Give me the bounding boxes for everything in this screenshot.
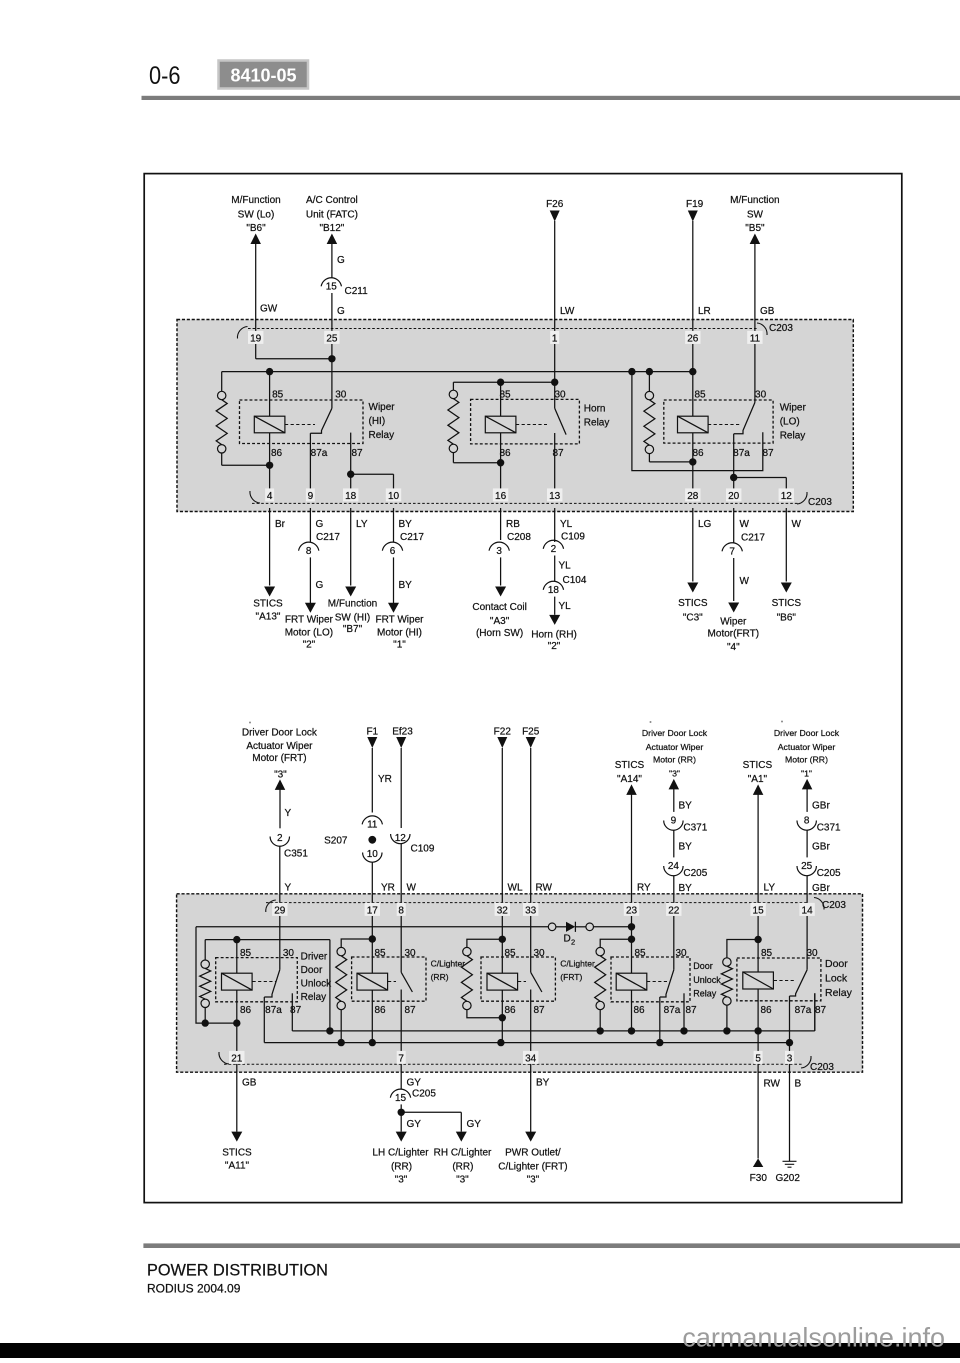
svg-text:"3": "3" <box>527 1175 540 1186</box>
svg-text:Door: Door <box>693 961 713 971</box>
svg-text:C/Lighter: C/Lighter <box>431 959 466 969</box>
svg-text:A/C Control: A/C Control <box>306 195 358 206</box>
svg-text:86: 86 <box>240 1005 252 1016</box>
svg-text:C371: C371 <box>817 823 841 834</box>
svg-text:22: 22 <box>668 906 680 917</box>
svg-text:BY: BY <box>399 519 413 530</box>
svg-text:"B12": "B12" <box>319 223 344 234</box>
svg-text:C203: C203 <box>769 323 793 334</box>
svg-text:F30: F30 <box>750 1173 768 1184</box>
svg-text:YL: YL <box>559 601 572 612</box>
svg-text:"B6": "B6" <box>777 613 797 624</box>
svg-text:YR: YR <box>381 883 395 894</box>
svg-text:87: 87 <box>351 448 363 459</box>
svg-text:(RR): (RR) <box>431 972 449 982</box>
svg-text:86: 86 <box>504 1005 516 1016</box>
svg-text:BY: BY <box>679 842 693 853</box>
svg-text:Unlock: Unlock <box>301 979 333 990</box>
svg-text:30: 30 <box>554 390 566 401</box>
svg-text:RY: RY <box>637 883 651 894</box>
svg-text:S207: S207 <box>324 836 348 847</box>
svg-text:9: 9 <box>671 816 677 827</box>
svg-text:G: G <box>337 255 345 266</box>
svg-text:87: 87 <box>533 1005 545 1016</box>
svg-text:D: D <box>564 934 571 945</box>
svg-text:Contact Coil: Contact Coil <box>472 602 526 613</box>
svg-text:"4": "4" <box>727 642 740 653</box>
svg-text:18: 18 <box>345 491 357 502</box>
svg-text:POWER DISTRIBUTION: POWER DISTRIBUTION <box>147 1262 328 1280</box>
svg-text:20: 20 <box>728 491 740 502</box>
svg-text:85: 85 <box>761 948 773 959</box>
svg-text:(Horn SW): (Horn SW) <box>476 628 523 639</box>
svg-text:Y: Y <box>285 808 292 819</box>
svg-text:FRT Wiper: FRT Wiper <box>376 614 425 625</box>
svg-text:87a: 87a <box>265 1005 282 1016</box>
svg-text:GY: GY <box>407 1119 422 1130</box>
svg-text:2: 2 <box>551 544 557 555</box>
svg-text:23: 23 <box>626 906 638 917</box>
svg-text:30: 30 <box>335 390 347 401</box>
svg-text:GB: GB <box>242 1077 257 1088</box>
svg-text:Wiper: Wiper <box>780 403 807 414</box>
svg-text:(HI): (HI) <box>369 416 386 427</box>
svg-text:F25: F25 <box>522 727 540 738</box>
svg-text:1: 1 <box>552 334 558 345</box>
svg-text:34: 34 <box>525 1054 537 1065</box>
svg-text:15: 15 <box>395 1093 407 1104</box>
svg-text:F26: F26 <box>546 199 564 210</box>
svg-text:GBr: GBr <box>812 883 830 894</box>
svg-text:87a: 87a <box>733 448 750 459</box>
svg-text:RW: RW <box>764 1079 781 1090</box>
svg-text:STICS: STICS <box>615 760 645 771</box>
svg-text:PWR Outlet/: PWR Outlet/ <box>505 1148 561 1159</box>
svg-text:30: 30 <box>533 948 545 959</box>
svg-text:10: 10 <box>388 491 400 502</box>
svg-text:9: 9 <box>308 491 314 502</box>
svg-text:FRT Wiper: FRT Wiper <box>285 614 334 625</box>
svg-text:Horn (RH): Horn (RH) <box>531 630 577 641</box>
svg-text:3: 3 <box>496 546 502 557</box>
svg-text:GB: GB <box>760 306 775 317</box>
svg-text:87a: 87a <box>311 448 328 459</box>
svg-text:"3": "3" <box>669 768 680 778</box>
svg-text:14: 14 <box>802 906 814 917</box>
svg-text:BY: BY <box>679 801 693 812</box>
svg-text:10: 10 <box>367 849 379 860</box>
svg-text:"1": "1" <box>801 768 812 778</box>
svg-text:Driver Door Lock: Driver Door Lock <box>642 728 708 738</box>
svg-text:16: 16 <box>495 491 507 502</box>
svg-text:C205: C205 <box>817 868 841 879</box>
svg-text:(LO): (LO) <box>780 417 800 428</box>
svg-text:C217: C217 <box>741 533 765 544</box>
svg-text:3: 3 <box>787 1054 793 1065</box>
svg-text:87: 87 <box>404 1005 416 1016</box>
svg-text:85: 85 <box>504 948 516 959</box>
svg-text:STICS: STICS <box>222 1148 252 1159</box>
svg-text:F19: F19 <box>686 199 704 210</box>
svg-text:M/Function: M/Function <box>231 195 280 206</box>
svg-text:7: 7 <box>398 1054 404 1065</box>
svg-text:GBr: GBr <box>812 842 830 853</box>
svg-text:Motor (FRT): Motor (FRT) <box>252 753 306 764</box>
svg-text:87a: 87a <box>795 1005 812 1016</box>
svg-text:85: 85 <box>694 390 706 401</box>
svg-text:Ef23: Ef23 <box>392 727 413 738</box>
svg-text:"A13": "A13" <box>256 612 281 623</box>
svg-text:Relay: Relay <box>369 430 395 441</box>
svg-text:C208: C208 <box>507 532 531 543</box>
svg-text:"1": "1" <box>393 640 406 651</box>
svg-text:"B6": "B6" <box>246 223 266 234</box>
svg-text:C205: C205 <box>412 1088 436 1099</box>
svg-text:"A3": "A3" <box>490 616 510 627</box>
svg-text:WL: WL <box>508 883 523 894</box>
svg-text:87a: 87a <box>664 1005 681 1016</box>
svg-text:8: 8 <box>398 906 404 917</box>
svg-text:STICS: STICS <box>772 598 802 609</box>
svg-text:Actuator Wiper: Actuator Wiper <box>778 742 836 752</box>
svg-text:33: 33 <box>525 906 537 917</box>
svg-text:"B5": "B5" <box>745 223 765 234</box>
svg-text:RH C/Lighter: RH C/Lighter <box>434 1148 492 1159</box>
svg-text:2: 2 <box>571 938 575 947</box>
svg-text:Wiper: Wiper <box>369 402 396 413</box>
svg-text:25: 25 <box>801 861 813 872</box>
svg-text:C371: C371 <box>683 823 707 834</box>
svg-text:24: 24 <box>668 861 680 872</box>
svg-text:85: 85 <box>240 948 252 959</box>
svg-text:RB: RB <box>506 519 520 530</box>
svg-text:"2": "2" <box>303 640 316 651</box>
svg-text:LY: LY <box>764 883 776 894</box>
svg-text:Unlock: Unlock <box>693 975 721 985</box>
svg-text:85: 85 <box>499 390 511 401</box>
svg-text:Door: Door <box>825 958 848 970</box>
svg-text:Br: Br <box>275 519 286 530</box>
svg-text:Driver Door Lock: Driver Door Lock <box>774 728 840 738</box>
svg-text:YL: YL <box>560 519 573 530</box>
svg-text:Wiper: Wiper <box>720 617 747 628</box>
svg-text:BY: BY <box>536 1077 550 1088</box>
svg-text:"A1": "A1" <box>748 774 768 785</box>
svg-text:Motor (RR): Motor (RR) <box>653 755 696 765</box>
svg-text:"3": "3" <box>274 770 287 781</box>
svg-text:86: 86 <box>692 448 704 459</box>
svg-text:"C3": "C3" <box>683 613 703 624</box>
svg-text:M/Function: M/Function <box>730 195 779 206</box>
svg-text:30: 30 <box>806 948 818 959</box>
svg-text:RODIUS 2004.09: RODIUS 2004.09 <box>147 1281 241 1295</box>
svg-text:G: G <box>316 519 324 530</box>
svg-text:Motor (HI): Motor (HI) <box>377 628 422 639</box>
svg-text:6: 6 <box>390 546 396 557</box>
svg-text:Relay: Relay <box>693 989 717 999</box>
svg-text:17: 17 <box>367 906 379 917</box>
svg-text:Relay: Relay <box>301 992 327 1003</box>
svg-text:87: 87 <box>552 448 564 459</box>
svg-text:W: W <box>792 519 802 530</box>
svg-text:GY: GY <box>467 1119 482 1130</box>
svg-text:86: 86 <box>374 1005 386 1016</box>
svg-text:"B7": "B7" <box>343 624 363 635</box>
svg-text:C/Lighter (FRT): C/Lighter (FRT) <box>498 1162 567 1173</box>
svg-text:86: 86 <box>633 1005 645 1016</box>
svg-text:86: 86 <box>499 448 511 459</box>
svg-text:Driver: Driver <box>301 952 328 963</box>
svg-text:8: 8 <box>804 816 810 827</box>
svg-text:85: 85 <box>634 948 646 959</box>
svg-text:YL: YL <box>559 560 572 571</box>
svg-text:87: 87 <box>815 1005 827 1016</box>
svg-text:C205: C205 <box>683 868 707 879</box>
svg-text:Relay: Relay <box>780 431 806 442</box>
svg-text:GY: GY <box>407 1077 422 1088</box>
svg-text:13: 13 <box>549 491 561 502</box>
svg-text:G: G <box>337 306 345 317</box>
svg-text:W: W <box>740 576 750 587</box>
svg-text:21: 21 <box>231 1054 243 1065</box>
svg-text:C109: C109 <box>411 844 435 855</box>
svg-text:30: 30 <box>404 948 416 959</box>
svg-text:YR: YR <box>378 774 392 785</box>
svg-text:LG: LG <box>698 519 712 530</box>
svg-text:STICS: STICS <box>678 598 708 609</box>
svg-text:"2": "2" <box>548 641 561 652</box>
svg-text:19: 19 <box>250 334 262 345</box>
svg-text:12: 12 <box>781 491 793 502</box>
svg-text:Lock: Lock <box>825 973 848 985</box>
svg-text:25: 25 <box>326 334 338 345</box>
svg-text:G202: G202 <box>775 1173 800 1184</box>
svg-text:C217: C217 <box>316 532 340 543</box>
svg-text:RW: RW <box>536 883 553 894</box>
svg-text:(RR): (RR) <box>391 1162 412 1173</box>
svg-text:BY: BY <box>679 883 693 894</box>
svg-text:C/Lighter: C/Lighter <box>560 959 595 969</box>
svg-text:C211: C211 <box>345 286 369 297</box>
svg-text:Motor (LO): Motor (LO) <box>285 628 333 639</box>
svg-text:7: 7 <box>729 547 735 558</box>
svg-text:Relay: Relay <box>825 987 853 999</box>
svg-text:LH C/Lighter: LH C/Lighter <box>372 1148 429 1159</box>
svg-text:C217: C217 <box>400 532 424 543</box>
svg-text:87: 87 <box>762 448 774 459</box>
svg-text:BY: BY <box>399 580 413 591</box>
svg-text:8: 8 <box>306 546 312 557</box>
svg-text:(FRT): (FRT) <box>560 972 582 982</box>
svg-text:2: 2 <box>277 833 283 844</box>
svg-text:30: 30 <box>283 948 295 959</box>
svg-text:STICS: STICS <box>253 599 283 610</box>
svg-text:0-6: 0-6 <box>149 62 181 90</box>
svg-text:"A11": "A11" <box>225 1160 250 1171</box>
svg-text:F1: F1 <box>366 727 378 738</box>
svg-text:Relay: Relay <box>584 418 610 429</box>
svg-text:"3": "3" <box>456 1175 469 1186</box>
svg-text:Y: Y <box>285 883 292 894</box>
svg-text:26: 26 <box>687 334 699 345</box>
svg-text:C109: C109 <box>561 532 585 543</box>
svg-text:Door: Door <box>301 965 323 976</box>
svg-text:SW (Lo): SW (Lo) <box>238 210 275 221</box>
svg-text:C351: C351 <box>284 849 308 860</box>
svg-text:Horn: Horn <box>584 404 606 415</box>
svg-text:C104: C104 <box>563 575 587 586</box>
svg-text:(RR): (RR) <box>452 1162 473 1173</box>
svg-text:8410-05: 8410-05 <box>230 66 296 86</box>
svg-text:Unit (FATC): Unit (FATC) <box>306 210 358 221</box>
svg-text:SW: SW <box>747 210 764 221</box>
svg-text:C203: C203 <box>810 1062 834 1073</box>
svg-text:85: 85 <box>374 948 386 959</box>
svg-text:"A14": "A14" <box>617 774 642 785</box>
svg-text:18: 18 <box>548 585 560 596</box>
svg-text:15: 15 <box>326 282 338 293</box>
svg-text:Motor (RR): Motor (RR) <box>785 755 828 765</box>
svg-text:G: G <box>316 580 324 591</box>
svg-text:C203: C203 <box>808 497 832 508</box>
svg-text:86: 86 <box>271 448 283 459</box>
svg-text:29: 29 <box>274 906 286 917</box>
svg-text:5: 5 <box>755 1054 761 1065</box>
svg-text:Actuator Wiper: Actuator Wiper <box>646 742 704 752</box>
svg-text:86: 86 <box>760 1005 772 1016</box>
svg-text:15: 15 <box>753 906 765 917</box>
svg-text:87: 87 <box>290 1005 302 1016</box>
svg-text:W: W <box>740 519 750 530</box>
svg-text:30: 30 <box>755 390 767 401</box>
svg-text:C203: C203 <box>822 900 846 911</box>
svg-text:B: B <box>795 1079 802 1090</box>
svg-text:4: 4 <box>267 491 273 502</box>
svg-text:W: W <box>407 883 417 894</box>
svg-text:28: 28 <box>687 491 699 502</box>
svg-text:LY: LY <box>356 519 368 530</box>
svg-text:32: 32 <box>497 906 509 917</box>
svg-text:GBr: GBr <box>812 801 830 812</box>
svg-text:F22: F22 <box>494 727 512 738</box>
svg-text:Motor(FRT): Motor(FRT) <box>708 629 759 640</box>
svg-text:Actuator Wiper: Actuator Wiper <box>246 741 313 752</box>
svg-text:M/Function: M/Function <box>328 599 377 610</box>
svg-text:carmanualsonline.info: carmanualsonline.info <box>682 1323 945 1353</box>
svg-text:11: 11 <box>367 820 378 831</box>
svg-text:"3": "3" <box>395 1175 408 1186</box>
svg-text:30: 30 <box>675 948 687 959</box>
svg-text:SW (HI): SW (HI) <box>335 613 371 624</box>
svg-text:Driver Door Lock: Driver Door Lock <box>242 728 318 739</box>
svg-text:LR: LR <box>698 306 711 317</box>
svg-text:LW: LW <box>560 306 575 317</box>
svg-text:87: 87 <box>685 1005 697 1016</box>
svg-text:85: 85 <box>272 390 284 401</box>
svg-text:STICS: STICS <box>743 760 773 771</box>
svg-text:11: 11 <box>750 334 761 345</box>
svg-text:GW: GW <box>260 304 278 315</box>
